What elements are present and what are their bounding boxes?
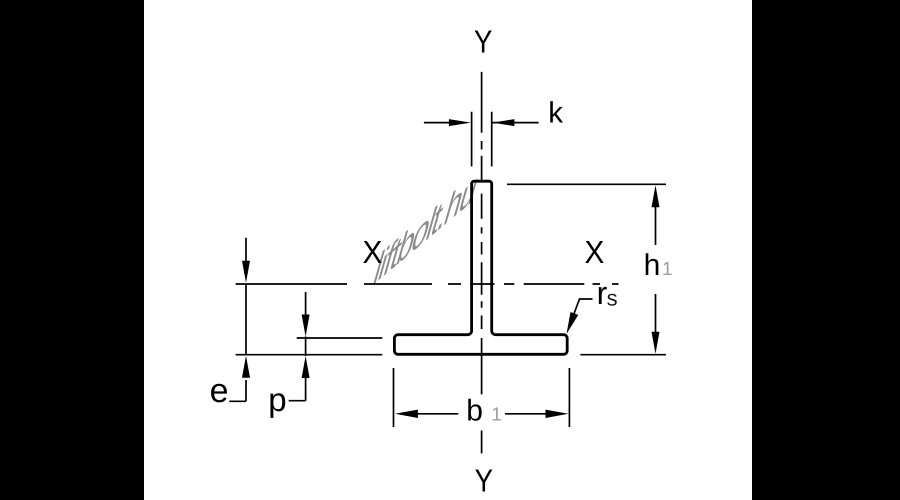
dimension k: lines and arrows (424, 122, 539, 124)
dimension k: extension lines (472, 112, 492, 167)
dimension h1: vertical line with arrows (655, 205, 657, 334)
dimension b1: extension lines (394, 368, 570, 427)
leader r_s (573, 299, 593, 317)
centroid axis X-X (horizontal dash-dot) (236, 283, 619, 285)
svg-text:e: e (210, 372, 229, 410)
svg-text:X: X (584, 234, 604, 270)
svg-text:s: s (607, 285, 618, 310)
dimension p: vertical line, arrows, foot (289, 292, 306, 401)
right black bar (752, 0, 900, 500)
svg-text:p: p (268, 381, 286, 418)
svg-text:1: 1 (491, 405, 502, 426)
svg-text:Y: Y (475, 463, 493, 499)
dimension h1: extension lines (507, 184, 666, 354)
svg-text:h: h (644, 249, 661, 282)
T-profile outline (394, 181, 567, 354)
svg-text:k: k (548, 97, 563, 130)
flange bottom extension line (left) (236, 354, 383, 356)
svg-text:1: 1 (662, 259, 673, 280)
dimension b1: line with arrows (416, 413, 547, 415)
left black bar (0, 0, 144, 500)
white drawing sheet (144, 0, 752, 500)
svg-text:Y: Y (474, 24, 492, 60)
svg-text:b: b (466, 395, 483, 428)
dimension e: vertical line, arrows, foot (229, 238, 246, 402)
flange top extension line (left) (297, 337, 383, 339)
svg-text:X: X (362, 234, 382, 270)
centerline Y (vertical dash-dot) (481, 72, 483, 454)
